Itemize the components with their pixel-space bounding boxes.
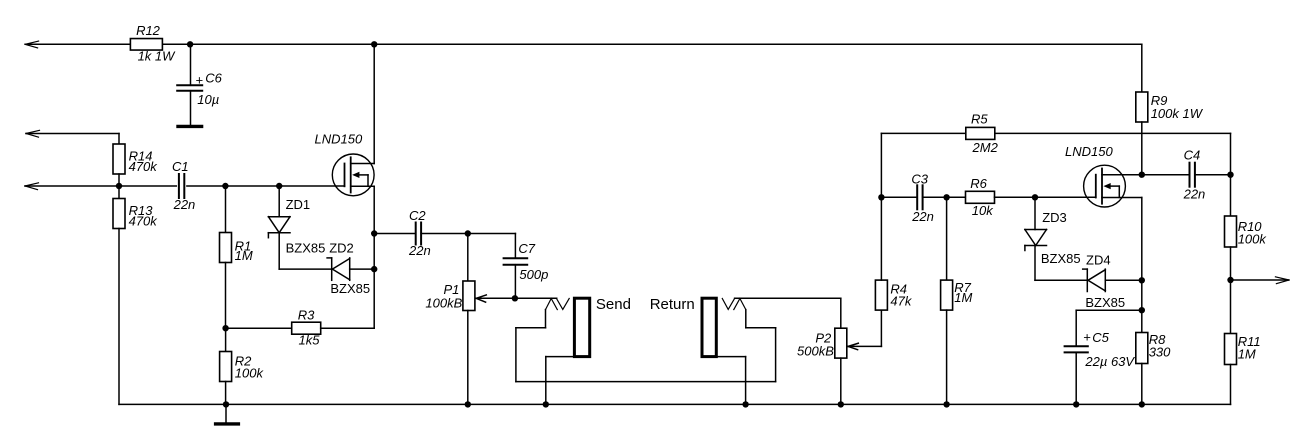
svg-text:10k: 10k: [972, 203, 994, 218]
svg-text:1M: 1M: [954, 290, 972, 305]
svg-text:500p: 500p: [519, 267, 548, 282]
node return sleeve ground: [742, 401, 748, 407]
wire input 2: [26, 134, 119, 145]
svg-text:LND150: LND150: [315, 132, 363, 147]
label return: [650, 296, 695, 313]
capacitor C2: [374, 208, 468, 258]
node R1/R3 junction: [222, 325, 228, 331]
potentiometer P2: [797, 328, 847, 404]
svg-text:ZD2: ZD2: [329, 241, 354, 256]
svg-text:C4: C4: [1184, 148, 1201, 163]
svg-text:100k 1W: 100k 1W: [1151, 106, 1204, 121]
resistor R10: [1225, 175, 1268, 280]
wire return to P2: [735, 298, 841, 328]
svg-text:BZX85: BZX85: [1085, 295, 1125, 310]
resistor R2: [220, 328, 265, 404]
svg-text:R5: R5: [971, 111, 988, 126]
wiper arrow P2: [848, 310, 881, 350]
node supply/C6 junction: [187, 41, 193, 47]
svg-text:+: +: [195, 72, 203, 87]
svg-text:22n: 22n: [408, 243, 431, 258]
svg-text:100kB: 100kB: [425, 295, 462, 310]
svg-text:1M: 1M: [1238, 346, 1256, 361]
node R14/R13 junction: [116, 183, 122, 189]
svg-text:R12: R12: [136, 23, 161, 38]
resistor R1: [220, 186, 253, 328]
wire R5 left vertical: [880, 133, 882, 280]
wire ZD3 to ZD4: [1035, 279, 1087, 281]
node ZD2/source junction: [371, 266, 377, 272]
svg-text:ZD1: ZD1: [286, 197, 311, 212]
svg-text:Return: Return: [650, 296, 695, 313]
capacitor C4: [1142, 148, 1231, 202]
resistor R7: [941, 197, 973, 404]
capacitor C3: [881, 172, 946, 225]
node source/C2 junction: [371, 230, 377, 236]
node C3 left junction: [878, 194, 884, 200]
svg-text:BZX85: BZX85: [330, 281, 370, 296]
arrow output: [1231, 277, 1289, 284]
svg-text:10µ: 10µ: [197, 92, 219, 107]
zener ZD3: [1025, 197, 1081, 280]
svg-text:C2: C2: [409, 208, 426, 223]
wire send switch path: [516, 328, 776, 382]
svg-text:22n: 22n: [911, 209, 934, 224]
node R7 ground junction: [943, 401, 949, 407]
connector J1 send jack: [516, 298, 590, 404]
node P2 ground junction: [838, 401, 844, 407]
node drain2 junction: [1139, 172, 1145, 178]
svg-text:2M2: 2M2: [972, 140, 999, 155]
svg-text:1M: 1M: [235, 248, 253, 263]
node R7 top junction: [943, 194, 965, 200]
node C5 top junction: [1139, 307, 1145, 313]
node R8 ground junction: [1139, 401, 1145, 407]
resistor R5: [881, 111, 1230, 174]
wire input 3 row: [25, 185, 176, 187]
resistor R9: [1136, 92, 1204, 175]
node C5 ground junction: [1073, 401, 1079, 407]
svg-text:R3: R3: [298, 308, 315, 323]
arrow left supply input: [25, 41, 38, 48]
resistor R14: [113, 144, 158, 186]
node R2 ground junction: [223, 401, 229, 407]
node gate ZD1 junction: [276, 183, 282, 189]
wire bottom ground bus: [119, 403, 1231, 405]
node send sleeve ground: [543, 401, 549, 407]
label send: [596, 296, 631, 313]
svg-text:22n: 22n: [1183, 187, 1206, 202]
svg-text:C3: C3: [911, 172, 928, 187]
svg-text:100k: 100k: [235, 365, 265, 380]
node C4 right junction: [1227, 172, 1233, 178]
svg-text:R6: R6: [970, 176, 987, 191]
wire top supply rail: [25, 44, 1142, 92]
node C7/wiper junction: [512, 295, 518, 301]
capacitor C5: [1065, 310, 1142, 404]
transistor U1 LND150: [315, 44, 375, 328]
transistor U2 LND150: [1065, 144, 1142, 280]
svg-text:1k 1W: 1k 1W: [138, 48, 177, 63]
svg-text:ZD4: ZD4: [1086, 252, 1111, 267]
node drain rail junction: [371, 41, 377, 47]
node P1 ground junction: [465, 401, 471, 407]
wire to send jack: [515, 297, 557, 299]
capacitor C1: [172, 159, 225, 212]
svg-text:LND150: LND150: [1065, 144, 1113, 159]
svg-text:47k: 47k: [890, 293, 912, 308]
zener ZD1: [268, 186, 325, 269]
resistor R11: [1225, 280, 1261, 404]
resistor R8: [1136, 280, 1171, 404]
node ZD4/source2 junction: [1139, 277, 1145, 283]
svg-text:C7: C7: [518, 241, 535, 256]
resistor R4: [875, 280, 912, 310]
svg-text:C6: C6: [205, 70, 222, 85]
svg-text:BZX85: BZX85: [286, 241, 326, 256]
svg-text:470k: 470k: [129, 159, 159, 174]
node C2/P1 junction: [465, 230, 471, 236]
svg-text:Send: Send: [596, 296, 631, 313]
arrow input 2: [26, 130, 40, 137]
resistor R6: [966, 176, 1096, 218]
svg-text:1k5: 1k5: [299, 332, 321, 347]
svg-text:500kB: 500kB: [797, 344, 834, 359]
wire left ground drop: [118, 229, 120, 405]
svg-text:C5: C5: [1092, 330, 1109, 345]
node C1/R1 junction: [222, 183, 344, 189]
svg-text:22µ 63V: 22µ 63V: [1084, 354, 1135, 369]
zener ZD2: [327, 241, 374, 296]
node output junction: [1227, 277, 1233, 283]
capacitor C7: [468, 234, 549, 299]
arrow input 3: [25, 183, 39, 190]
resistor R13: [113, 186, 158, 229]
node gate2 ZD3 junction: [1032, 194, 1038, 200]
svg-text:470k: 470k: [129, 213, 159, 228]
resistor R3: [226, 308, 375, 348]
wiper arrow P1: [476, 295, 515, 302]
svg-text:100k: 100k: [1238, 231, 1268, 246]
svg-text:330: 330: [1149, 344, 1171, 359]
svg-text:ZD3: ZD3: [1042, 210, 1067, 225]
wire ZD1 to ZD2: [279, 268, 332, 270]
svg-text:22n: 22n: [173, 197, 196, 212]
ground main: [216, 404, 239, 424]
zener ZD4: [1083, 252, 1142, 310]
svg-text:+: +: [1083, 330, 1091, 345]
resistor R12: [130, 23, 176, 64]
ground C6: [178, 125, 202, 128]
svg-text:C1: C1: [172, 159, 189, 174]
capacitor C6: [177, 44, 222, 125]
svg-text:BZX85: BZX85: [1041, 251, 1081, 266]
potentiometer P1: [425, 234, 474, 405]
connector J2 return jack: [702, 298, 776, 404]
